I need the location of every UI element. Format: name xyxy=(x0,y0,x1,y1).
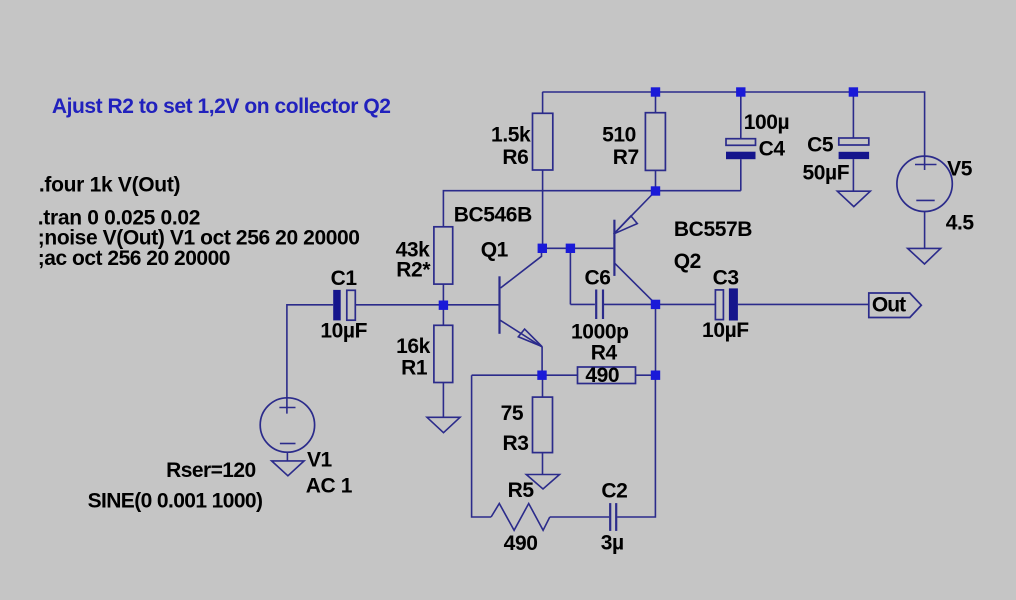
svg-text:R7: R7 xyxy=(613,146,639,169)
svg-text:Q1: Q1 xyxy=(481,238,509,261)
junction R4 right node xyxy=(651,371,660,380)
resistor R5 xyxy=(491,479,550,555)
wire C6 drop xyxy=(569,248,571,304)
svg-text:4.5: 4.5 xyxy=(946,212,975,235)
wire R4 right xyxy=(636,374,656,376)
wire R5 to C2 xyxy=(550,516,609,518)
capacitor C6 xyxy=(570,266,655,343)
svg-text:50µF: 50µF xyxy=(802,161,849,184)
junction rail-C5 xyxy=(849,87,858,96)
svg-text:.four 1k V(Out): .four 1k V(Out) xyxy=(39,173,180,196)
svg-text:C1: C1 xyxy=(331,267,358,290)
wire R1 bottom lead xyxy=(442,383,444,418)
wire emitter net xyxy=(472,374,578,376)
junction R7-Q2 emitter node xyxy=(651,186,660,195)
svg-text:10µF: 10µF xyxy=(320,319,367,342)
ground V1 xyxy=(272,461,305,476)
svg-text:R3: R3 xyxy=(502,432,528,455)
svg-text:R2*: R2* xyxy=(396,258,431,281)
capacitor C1 xyxy=(320,267,367,342)
wire top rail xyxy=(542,92,924,170)
svg-text:Rser=120: Rser=120 xyxy=(166,459,256,482)
svg-text:490: 490 xyxy=(504,532,538,555)
wire R7 top lead xyxy=(655,92,657,113)
resistor R7 xyxy=(602,113,665,171)
resistor R2 xyxy=(396,227,453,284)
junction Q2 collector / Out node xyxy=(651,300,660,309)
svg-text:Q2: Q2 xyxy=(674,250,701,273)
svg-text:3µ: 3µ xyxy=(601,531,624,554)
svg-text:Ajust R2 to set 1,2V on collec: Ajust R2 to set 1,2V on collector Q2 xyxy=(52,95,391,118)
svg-text:Out: Out xyxy=(872,293,906,316)
svg-text:;ac oct 256 20 20000: ;ac oct 256 20 20000 xyxy=(38,247,230,270)
svg-text:BC557B: BC557B xyxy=(674,218,752,241)
wire C1 left xyxy=(287,305,333,414)
svg-text:C2: C2 xyxy=(601,480,627,503)
ground R3 xyxy=(526,475,559,490)
resistor R1 xyxy=(396,325,453,382)
ground V5 xyxy=(908,248,941,264)
svg-text:R5: R5 xyxy=(508,479,535,502)
svg-text:R4: R4 xyxy=(591,341,618,364)
svg-text:490: 490 xyxy=(585,364,619,387)
voltage source V5 xyxy=(897,156,975,248)
junction Q1 collector node xyxy=(538,244,547,253)
ground C5 xyxy=(837,191,870,206)
svg-text:C6: C6 xyxy=(584,266,610,289)
capacitor C4 xyxy=(726,92,789,191)
ground R1 xyxy=(427,417,460,432)
resistor R4 xyxy=(578,341,636,387)
svg-text:V5: V5 xyxy=(947,158,973,181)
capacitor C2 xyxy=(601,480,628,555)
wire input net xyxy=(355,304,499,306)
junction Q1 base node xyxy=(439,301,448,310)
svg-text:R1: R1 xyxy=(401,356,428,379)
svg-text:R6: R6 xyxy=(502,146,528,169)
capacitor C3 xyxy=(656,267,869,342)
svg-text:75: 75 xyxy=(501,402,524,425)
voltage source V1 xyxy=(260,398,353,498)
svg-text:10µF: 10µF xyxy=(702,319,749,342)
junction rail-R7 xyxy=(651,87,660,96)
transistor Q2 xyxy=(614,191,753,304)
svg-text:C5: C5 xyxy=(807,134,834,157)
svg-text:C3: C3 xyxy=(713,267,739,290)
capacitor C5 xyxy=(802,92,869,191)
svg-text:100µ: 100µ xyxy=(744,111,790,134)
svg-text:AC 1: AC 1 xyxy=(306,474,353,497)
svg-text:16k: 16k xyxy=(396,335,431,358)
wire R2-R1 xyxy=(442,284,444,325)
svg-text:SINE(0 0.001 1000): SINE(0 0.001 1000) xyxy=(88,490,263,513)
svg-text:510: 510 xyxy=(602,123,636,146)
junction rail-C4 xyxy=(736,87,745,96)
resistor R3 xyxy=(501,375,553,474)
wire R6 top lead xyxy=(542,92,544,113)
wire collector node xyxy=(542,247,613,249)
svg-text:1.5k: 1.5k xyxy=(491,123,531,146)
port Out xyxy=(869,293,922,318)
svg-text:C4: C4 xyxy=(759,137,786,160)
wire feedback rail y190.7 and R2 top lead xyxy=(443,191,740,227)
svg-text:1000p: 1000p xyxy=(571,320,629,343)
wire left loop xyxy=(472,375,492,517)
wire C2 right loop xyxy=(617,375,655,517)
resistor R6 xyxy=(491,113,553,170)
transistor Q1 xyxy=(454,204,542,376)
wire R7 bottom lead xyxy=(655,170,657,191)
junction C6 tap on base wire xyxy=(566,244,575,253)
junction Q1 emitter node xyxy=(537,371,546,380)
wire R6 bottom lead xyxy=(542,170,544,248)
wire C3 node drop xyxy=(655,304,657,375)
svg-text:V1: V1 xyxy=(307,448,333,471)
svg-text:BC546B: BC546B xyxy=(454,204,532,227)
